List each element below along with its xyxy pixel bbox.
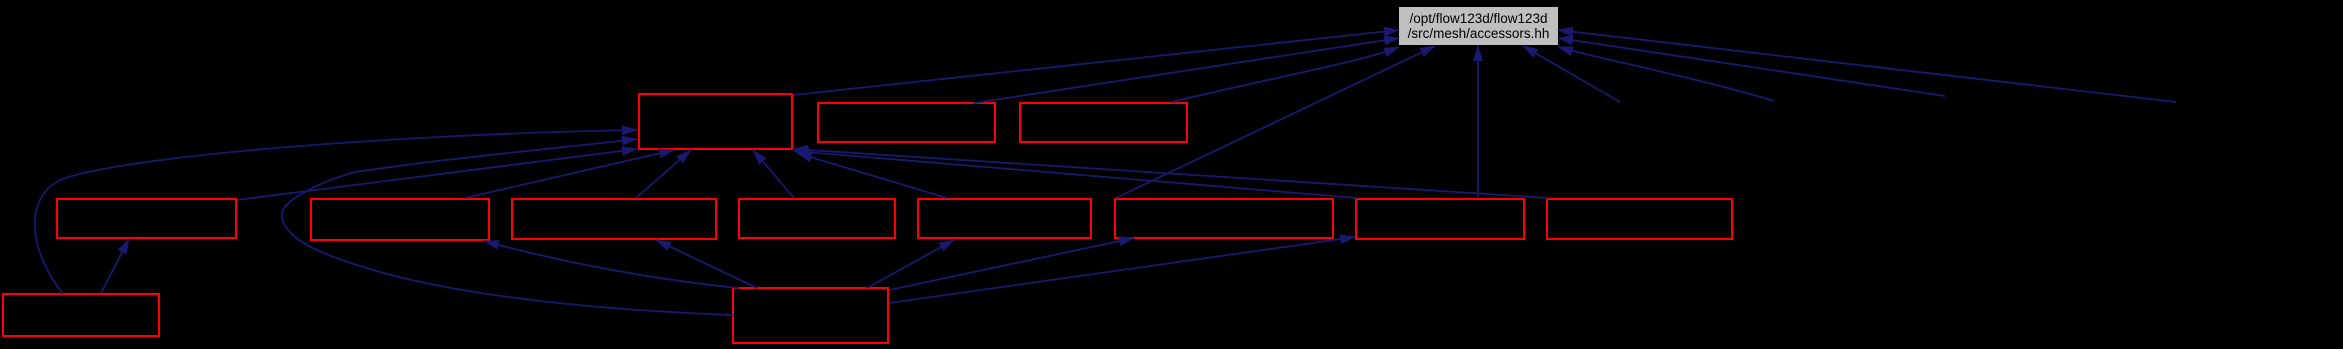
svg-text:/opt/flow123d/flow123d: /opt/flow123d/flow123d <box>1409 11 1547 26</box>
svg-text:/src/mesh/accessors.hh: /src/mesh/accessors.hh <box>1408 26 1550 41</box>
